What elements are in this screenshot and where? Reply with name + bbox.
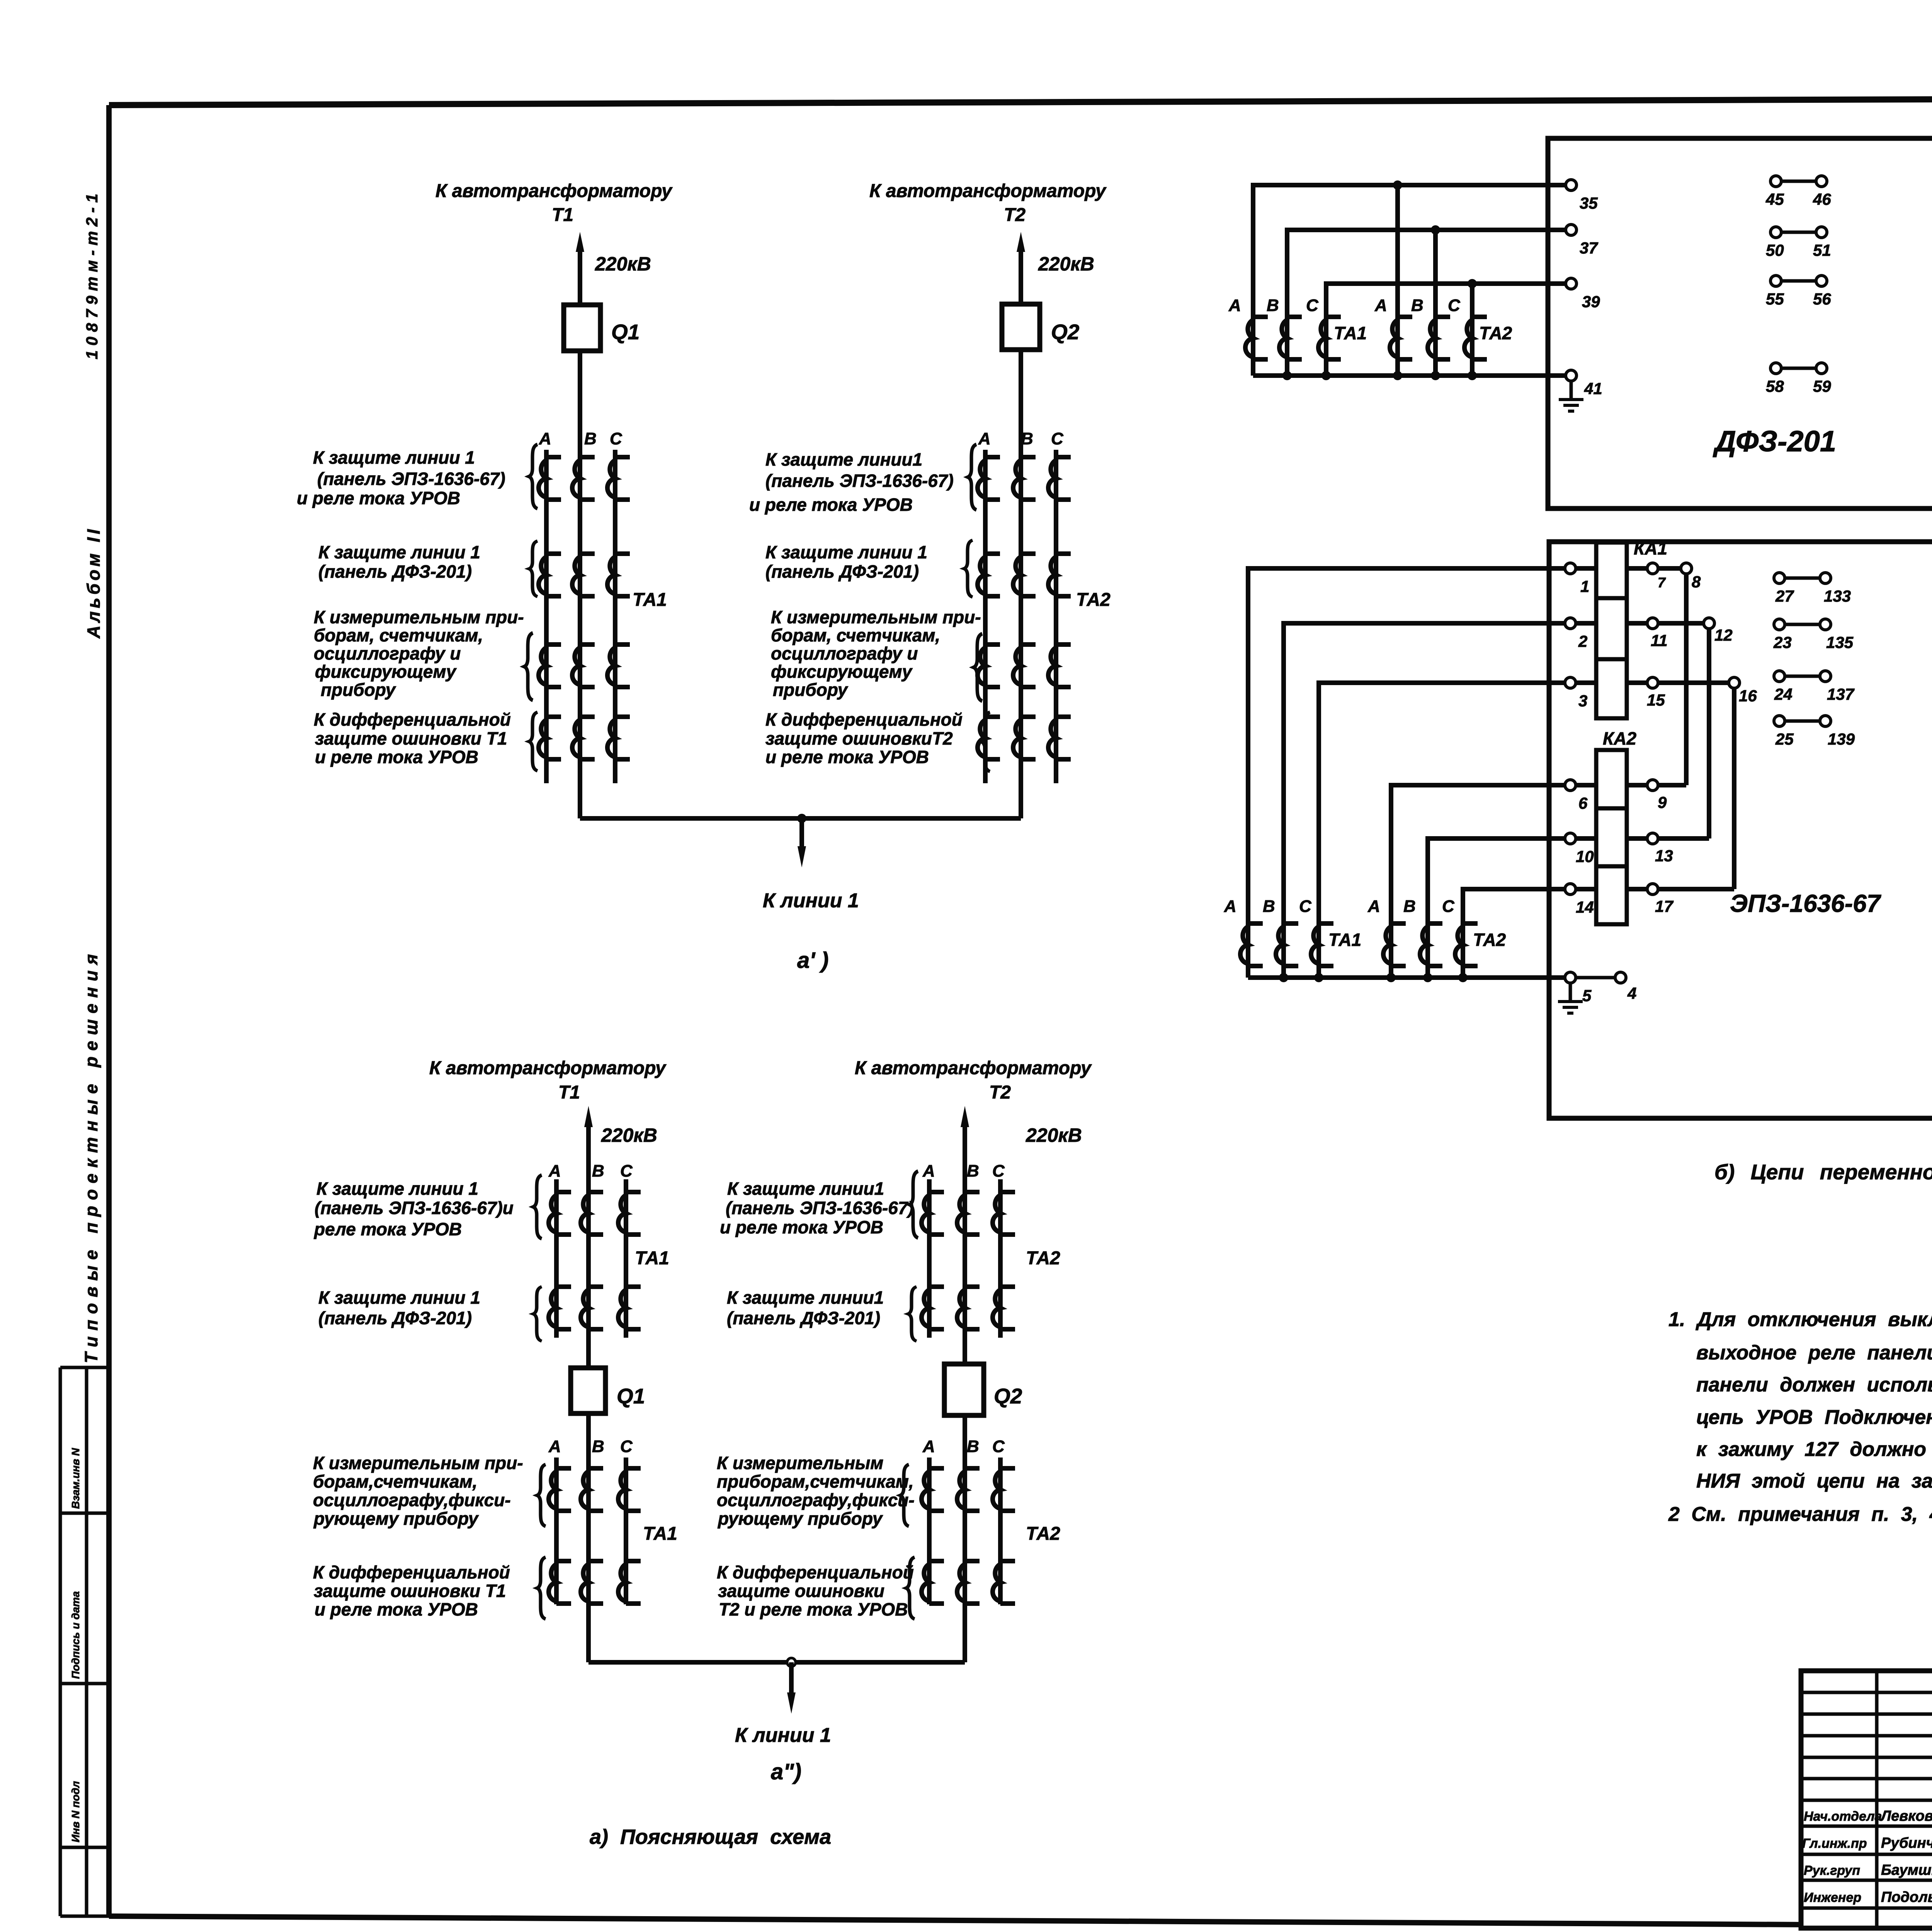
svg-text:С: С <box>620 1437 633 1456</box>
svg-text:9: 9 <box>1658 793 1667 811</box>
svg-text:2: 2 <box>1578 632 1587 650</box>
svg-text:Гл.инж.пр: Гл.инж.пр <box>1802 1836 1867 1851</box>
svg-text:С: С <box>620 1162 633 1180</box>
svg-text:А: А <box>922 1437 935 1456</box>
svg-text:6: 6 <box>1578 794 1588 812</box>
svg-text:С: С <box>610 429 622 448</box>
wire phase B T1 <box>578 351 582 818</box>
svg-text:45: 45 <box>1765 190 1784 208</box>
svg-text:(панель ДФЗ-201): (панель ДФЗ-201) <box>727 1308 880 1328</box>
svg-text:фиксирующему: фиксирующему <box>315 662 457 682</box>
CT TA1 upper set <box>1245 317 1268 359</box>
svg-text:прибору: прибору <box>773 680 849 700</box>
jumper 25-139 <box>1774 716 1785 726</box>
svg-text:(панель ДФЗ-201): (панель ДФЗ-201) <box>318 561 472 582</box>
svg-text:С: С <box>1442 897 1455 916</box>
breaker Q1 <box>571 1368 605 1413</box>
svg-text:К автотрансформатору: К автотрансформатору <box>855 1058 1092 1078</box>
CT row 2 T1 <box>549 1287 571 1329</box>
svg-text:К защите линии 1: К защите линии 1 <box>313 447 475 468</box>
svg-text:осциллографу и: осциллографу и <box>771 643 918 663</box>
CT TA2 lower set <box>1383 923 1406 966</box>
svg-text:а' ): а' ) <box>797 948 828 973</box>
svg-text:и реле тока УРОВ: и реле тока УРОВ <box>749 495 913 515</box>
terminal 14 <box>1565 884 1576 895</box>
svg-text:осциллографу,фикси-: осциллографу,фикси- <box>313 1490 511 1510</box>
svg-text:и реле тока УРОВ: и реле тока УРОВ <box>765 747 929 767</box>
terminal 4 <box>1615 972 1626 983</box>
svg-text:А: А <box>548 1162 561 1180</box>
CT row 2 T1 <box>539 554 561 596</box>
svg-text:С: С <box>1299 897 1312 916</box>
terminal 2 <box>1565 618 1576 629</box>
svg-text:а) Поясняющая схема: а) Поясняющая схема <box>590 1825 831 1849</box>
junction dots upper set <box>1393 180 1402 190</box>
braces a2 column1 <box>533 1175 542 1239</box>
svg-text:ТА1: ТА1 <box>643 1524 677 1544</box>
thin rows <box>1801 1692 1932 1800</box>
wire A2 up <box>1395 185 1400 376</box>
wire C2 up <box>1470 284 1475 376</box>
wire T2 feeder arrow <box>1019 249 1023 304</box>
CT row 3 T1 <box>549 1468 571 1511</box>
svg-text:КА1: КА1 <box>1634 538 1667 558</box>
svg-text:58: 58 <box>1766 377 1784 395</box>
CT TA1 lower set <box>1240 923 1263 966</box>
svg-text:27: 27 <box>1775 587 1794 605</box>
svg-text:К защите линии1: К защите линии1 <box>765 449 922 469</box>
jumper 27-133 <box>1774 573 1785 583</box>
wire line bus <box>580 816 1021 821</box>
svg-text:К защите линии1: К защите линии1 <box>727 1179 884 1199</box>
svg-text:панели должен использоваться: панели должен использоваться зажим 127, … <box>1696 1374 1932 1396</box>
CT row 4 T2 <box>922 1561 944 1604</box>
svg-text:220кВ: 220кВ <box>1038 253 1094 275</box>
svg-text:Левкович: Левкович <box>1880 1808 1932 1824</box>
svg-text:Альбом II: Альбом II <box>83 526 104 639</box>
wire A2 to term 6 <box>1391 785 1565 978</box>
svg-text:К измерительным при-: К измерительным при- <box>771 607 981 627</box>
svg-text:К дифференциальной: К дифференциальной <box>717 1562 914 1582</box>
svg-text:55: 55 <box>1766 290 1784 308</box>
svg-text:1. Для отключения выключател: 1. Для отключения выключателя линии при … <box>1668 1308 1932 1331</box>
wire T2 feeder arrow <box>963 1124 967 1179</box>
svg-text:50: 50 <box>1766 241 1784 259</box>
junction dots lower set <box>1279 973 1288 982</box>
border bottom <box>109 1916 1932 1929</box>
svg-text:К измерительным: К измерительным <box>717 1453 883 1473</box>
svg-text:В: В <box>592 1437 604 1456</box>
terminal 3 <box>1565 677 1576 688</box>
svg-text:борам,счетчикам,: борам,счетчикам, <box>313 1471 477 1492</box>
svg-text:В: В <box>584 429 597 448</box>
braces column2 <box>968 444 976 510</box>
wire phase B T2 <box>1019 350 1023 818</box>
svg-text:В: В <box>967 1437 979 1456</box>
svg-text:и реле тока УРОВ: и реле тока УРОВ <box>315 1599 478 1619</box>
svg-text:Q1: Q1 <box>617 1384 645 1408</box>
svg-text:А: А <box>922 1162 935 1180</box>
svg-text:С: С <box>1448 296 1461 315</box>
KA2 row2 wiring <box>1576 836 1709 841</box>
svg-text:10879тм-т2-1: 10879тм-т2-1 <box>83 189 101 359</box>
svg-text:осциллографу и: осциллографу и <box>314 643 461 663</box>
CT row 1 T2 <box>978 457 1000 500</box>
svg-text:К защите линии1: К защите линии1 <box>727 1287 884 1308</box>
KA1 row3 wiring <box>1576 680 1729 685</box>
svg-text:56: 56 <box>1813 290 1831 308</box>
svg-text:(панель ЭПЗ-1636-67): (панель ЭПЗ-1636-67) <box>726 1198 914 1218</box>
svg-text:К автотрансформатору: К автотрансформатору <box>429 1058 667 1078</box>
svg-text:защите ошиновки Т1: защите ошиновки Т1 <box>315 728 507 748</box>
svg-text:С: С <box>1306 296 1319 315</box>
svg-text:Q1: Q1 <box>611 320 639 344</box>
svg-text:4: 4 <box>1627 984 1636 1002</box>
svg-text:С: С <box>992 1437 1005 1456</box>
jumper 58-59 <box>1770 363 1781 374</box>
svg-text:борам, счетчикам,: борам, счетчикам, <box>314 625 483 645</box>
svg-text:Т2: Т2 <box>1004 205 1026 225</box>
svg-text:(панель ДФЗ-201): (панель ДФЗ-201) <box>765 561 919 582</box>
svg-text:К защите линии 1: К защите линии 1 <box>318 542 480 562</box>
wire phase A T2 <box>983 450 988 783</box>
svg-text:цепь УРОВ Подключение выход: цепь УРОВ Подключение выходного промежут… <box>1696 1406 1932 1429</box>
svg-text:и реле тока УРОВ: и реле тока УРОВ <box>315 747 478 767</box>
svg-text:10: 10 <box>1576 847 1594 866</box>
svg-text:прибору: прибору <box>321 680 396 700</box>
svg-text:НИЯ этой цепи на заводе).: НИЯ этой цепи на заводе). <box>1696 1470 1932 1492</box>
breaker Q2 <box>944 1364 984 1415</box>
CT row 4 T2 <box>978 717 1000 759</box>
svg-text:137: 137 <box>1827 685 1855 703</box>
CT TA2 upper set <box>1390 317 1412 359</box>
left grid verticals <box>1877 1671 1932 1928</box>
svg-text:23: 23 <box>1773 633 1792 651</box>
svg-text:А: А <box>1374 296 1387 315</box>
svg-text:24: 24 <box>1774 685 1793 703</box>
svg-text:К линии 1: К линии 1 <box>763 889 859 912</box>
braces column1 <box>529 444 537 509</box>
svg-text:К измерительным при-: К измерительным при- <box>313 1453 523 1473</box>
wire phase C T2 <box>1054 450 1058 783</box>
svg-text:Т2 и реле тока УРОВ: Т2 и реле тока УРОВ <box>719 1599 908 1619</box>
svg-text:37: 37 <box>1580 239 1598 257</box>
CT row 1 T1 <box>539 457 561 500</box>
wire C2 to term 14 <box>1463 889 1565 978</box>
wire T1 feeder arrow <box>578 249 582 305</box>
CT row 3 T1 <box>539 645 561 687</box>
svg-text:133: 133 <box>1824 587 1851 605</box>
CT row 4 T1 <box>549 1561 571 1604</box>
margin text Tipovye <box>81 948 101 1363</box>
svg-text:К автотрансформатору: К автотрансформатору <box>869 181 1107 201</box>
CT row 2 T2 <box>922 1287 944 1329</box>
svg-text:ТА2: ТА2 <box>1076 590 1111 610</box>
wire to line 1 arrow <box>799 818 804 848</box>
svg-text:ТА1: ТА1 <box>1334 323 1367 343</box>
svg-text:В: В <box>1021 429 1033 448</box>
svg-text:220кВ: 220кВ <box>601 1124 657 1146</box>
svg-text:КА2: КА2 <box>1603 728 1636 748</box>
svg-text:А: А <box>1367 897 1380 916</box>
svg-text:фиксирующему: фиксирующему <box>771 662 913 682</box>
svg-text:2 См. примечания п. 3, 4: 2 См. примечания п. 3, 4 к схеме рис 1 <box>1668 1503 1932 1526</box>
svg-text:Т1: Т1 <box>558 1082 580 1103</box>
breaker Q2 <box>1002 304 1040 350</box>
svg-text:3: 3 <box>1578 692 1587 710</box>
wire to line 1 arrow <box>789 1662 794 1694</box>
svg-text:7: 7 <box>1658 575 1666 590</box>
svg-text:осциллографу,фикси-: осциллографу,фикси- <box>717 1490 915 1510</box>
svg-text:К дифференциальной: К дифференциальной <box>314 709 511 730</box>
terminal 39 <box>1566 278 1577 289</box>
svg-text:Нач.отдела: Нач.отдела <box>1804 1809 1882 1824</box>
svg-text:В: В <box>1267 296 1279 315</box>
svg-text:К дифференциальной: К дифференциальной <box>765 709 963 730</box>
svg-text:11: 11 <box>1651 631 1668 650</box>
svg-text:ТА1: ТА1 <box>633 590 667 610</box>
svg-text:ЭПЗ-1636-67: ЭПЗ-1636-67 <box>1730 889 1882 917</box>
svg-text:А: А <box>548 1437 561 1456</box>
svg-text:(панель ДФЗ-201): (панель ДФЗ-201) <box>318 1308 472 1328</box>
KA1 row1 wiring <box>1576 566 1681 571</box>
svg-text:а"): а") <box>771 1759 801 1784</box>
svg-text:ТА1: ТА1 <box>1328 930 1361 950</box>
wire phase A T1 <box>544 450 549 783</box>
svg-text:защите ошиновки Т1: защите ошиновки Т1 <box>314 1581 506 1601</box>
terminal 6 <box>1565 780 1576 791</box>
braces a2 column2 <box>910 1171 918 1238</box>
svg-text:Инженер: Инженер <box>1804 1890 1861 1905</box>
svg-text:к зажиму 127 должно осущест: к зажиму 127 должно осуществляться на ме… <box>1696 1438 1932 1461</box>
svg-text:ТА2: ТА2 <box>1026 1248 1060 1269</box>
svg-text:ТА2: ТА2 <box>1473 930 1506 950</box>
svg-text:К линии 1: К линии 1 <box>735 1724 831 1747</box>
svg-text:А: А <box>1228 296 1241 315</box>
svg-text:А: А <box>978 429 991 448</box>
svg-text:приборам,счетчикам,: приборам,счетчикам, <box>717 1471 914 1492</box>
jumper 23-135 <box>1774 619 1785 630</box>
svg-text:Инв N подл: Инв N подл <box>70 1781 82 1842</box>
svg-text:К защите линии 1: К защите линии 1 <box>765 542 927 562</box>
margin text Albom II <box>83 526 104 639</box>
svg-text:Баумштейн: Баумштейн <box>1881 1862 1932 1878</box>
wire phase C T2 <box>998 1179 1003 1604</box>
wire common to term 41 <box>1253 373 1566 378</box>
wire 8 to 9 <box>1684 574 1689 785</box>
svg-text:борам, счетчикам,: борам, счетчикам, <box>771 625 940 645</box>
svg-text:выходное реле панели резервн: выходное реле панели резервных защит тип… <box>1696 1342 1932 1364</box>
svg-text:Типовые проектные решения: Типовые проектные решения <box>81 948 101 1363</box>
svg-text:35: 35 <box>1580 194 1598 212</box>
relay KA2 <box>1596 750 1627 924</box>
wire B1 to term 2 <box>1284 623 1565 978</box>
svg-text:В: В <box>1411 296 1423 315</box>
svg-text:5: 5 <box>1582 986 1592 1005</box>
terminal 5 <box>1565 972 1576 983</box>
svg-text:рующему прибору: рующему прибору <box>717 1509 883 1529</box>
border left <box>106 105 112 1916</box>
terminal 10 <box>1565 833 1576 844</box>
svg-text:12: 12 <box>1714 626 1733 644</box>
svg-text:16: 16 <box>1739 687 1757 705</box>
relay KA1 <box>1596 543 1627 718</box>
svg-text:реле тока УРОВ: реле тока УРОВ <box>313 1219 462 1239</box>
svg-text:ТА2: ТА2 <box>1026 1524 1060 1544</box>
CT row 2 T2 <box>978 554 1000 596</box>
wire C to term 39 <box>1326 284 1566 376</box>
svg-text:рующему прибору: рующему прибору <box>313 1509 479 1529</box>
wire A to term 35 <box>1253 185 1566 376</box>
svg-text:и реле тока УРОВ: и реле тока УРОВ <box>720 1217 883 1237</box>
jumper 45-46 <box>1770 176 1781 187</box>
svg-text:ТА1: ТА1 <box>635 1248 669 1269</box>
terminal 35 <box>1566 180 1577 190</box>
svg-text:41: 41 <box>1584 379 1602 398</box>
svg-text:К автотрансформатору: К автотрансформатору <box>435 181 673 201</box>
wire phase C T1 <box>613 450 617 783</box>
jumper 55-56 <box>1770 276 1781 286</box>
svg-text:220кВ: 220кВ <box>1026 1124 1082 1146</box>
svg-text:(панель ЭПЗ-1636-67): (панель ЭПЗ-1636-67) <box>765 471 954 491</box>
svg-text:В: В <box>1263 897 1275 916</box>
svg-text:15: 15 <box>1647 691 1665 709</box>
svg-text:Q2: Q2 <box>1051 320 1080 344</box>
wire B to term 37 <box>1287 230 1566 376</box>
terminal 37 <box>1566 224 1577 235</box>
svg-text:220кВ: 220кВ <box>595 253 651 275</box>
svg-text:8: 8 <box>1692 573 1701 591</box>
margin stamp table <box>60 1367 109 1916</box>
name rows <box>1801 1826 1932 1908</box>
wire common to term 5 <box>1248 975 1565 980</box>
svg-text:В: В <box>967 1162 979 1180</box>
svg-text:К защите линии 1: К защите линии 1 <box>316 1179 478 1199</box>
jumper 24-137 <box>1774 671 1785 682</box>
svg-text:46: 46 <box>1813 190 1831 208</box>
wire phase C T1 <box>624 1179 628 1604</box>
svg-text:В: В <box>1403 897 1416 916</box>
KA2 row3 wiring <box>1576 887 1734 891</box>
wire 16 to 17 <box>1732 688 1736 889</box>
CT row 1 T1 <box>549 1192 571 1235</box>
terminal 41 <box>1566 370 1577 381</box>
svg-text:Рук.груп: Рук.груп <box>1804 1863 1860 1878</box>
svg-text:1: 1 <box>1580 577 1589 595</box>
svg-text:(панель ЭПЗ-1636-67): (панель ЭПЗ-1636-67) <box>317 469 505 489</box>
EPZ-1636-67 panel box <box>1549 542 1932 1118</box>
svg-text:К защите линии 1: К защите линии 1 <box>318 1287 480 1308</box>
svg-text:135: 135 <box>1826 633 1854 651</box>
svg-text:б) Цепи переменного тока и нап: б) Цепи переменного тока и напряжения <box>1714 1160 1932 1184</box>
svg-text:59: 59 <box>1813 377 1831 395</box>
jumper 50-51 <box>1770 227 1781 238</box>
wire phase B T2 <box>963 1124 967 1662</box>
wire A1 to term 1 <box>1248 568 1565 978</box>
terminal 1 <box>1565 563 1576 574</box>
CT row 3 T2 <box>922 1468 944 1511</box>
svg-text:Взам.инв N: Взам.инв N <box>70 1448 82 1509</box>
svg-text:ДФЗ-201: ДФЗ-201 <box>1713 425 1836 458</box>
KA1 row2 wiring <box>1576 621 1704 626</box>
CT row 1 T2 <box>922 1192 944 1235</box>
svg-text:Q2: Q2 <box>994 1384 1022 1408</box>
svg-text:17: 17 <box>1655 897 1673 915</box>
svg-text:39: 39 <box>1582 293 1600 311</box>
CT row 4 T1 <box>539 717 561 759</box>
svg-text:Т1: Т1 <box>552 205 573 225</box>
wire T1 feeder arrow <box>586 1124 591 1179</box>
svg-text:14: 14 <box>1576 898 1594 916</box>
svg-text:защите ошиновкиТ2: защите ошиновкиТ2 <box>765 728 953 748</box>
svg-text:А: А <box>1224 897 1236 916</box>
svg-text:С: С <box>1051 429 1064 448</box>
ground at 41 <box>1570 381 1573 400</box>
svg-text:Рубинчик: Рубинчик <box>1881 1835 1932 1851</box>
svg-text:Т2: Т2 <box>989 1082 1011 1103</box>
node junction <box>787 1658 796 1667</box>
svg-text:ТА2: ТА2 <box>1479 323 1512 343</box>
wire C1 to term 3 <box>1319 683 1565 978</box>
svg-text:25: 25 <box>1775 730 1794 748</box>
KA2 row1 wiring <box>1576 783 1686 787</box>
border top <box>109 97 1932 105</box>
svg-text:защите ошиновки: защите ошиновки <box>718 1581 884 1601</box>
wire phase A T1 <box>554 1179 559 1604</box>
svg-text:51: 51 <box>1813 241 1831 259</box>
svg-text:139: 139 <box>1828 730 1855 748</box>
CT row 3 T2 <box>978 645 1000 687</box>
ground at 5 <box>1569 983 1572 1002</box>
svg-text:В: В <box>592 1162 604 1180</box>
wire phase B T1 <box>586 1124 591 1662</box>
svg-text:и реле тока УРОВ: и реле тока УРОВ <box>297 488 460 508</box>
DFZ-201 panel box <box>1548 138 1932 509</box>
margin text 10879tm <box>83 189 101 359</box>
svg-text:С: С <box>992 1162 1005 1180</box>
wire B2 up <box>1433 230 1438 376</box>
node junction <box>797 814 806 823</box>
svg-text:Подольская: Подольская <box>1881 1889 1932 1905</box>
svg-text:А: А <box>539 429 551 448</box>
breaker Q1 <box>564 305 600 351</box>
wire phase A T2 <box>927 1179 932 1604</box>
svg-text:13: 13 <box>1655 847 1673 865</box>
svg-text:(панель ЭПЗ-1636-67)и: (панель ЭПЗ-1636-67)и <box>315 1198 514 1218</box>
svg-text:К измерительным при-: К измерительным при- <box>314 607 524 627</box>
svg-text:Подпись и дата: Подпись и дата <box>70 1591 82 1679</box>
wire line bus <box>588 1660 965 1665</box>
wire 12 to 13 <box>1707 629 1711 838</box>
wire B2 to term 10 <box>1428 838 1565 978</box>
svg-text:К дифференциальной: К дифференциальной <box>313 1562 510 1582</box>
